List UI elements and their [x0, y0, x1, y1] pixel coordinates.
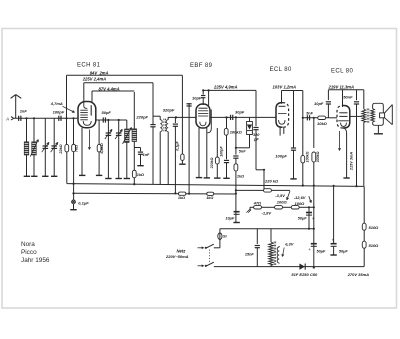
svg-text:1kΩ: 1kΩ — [137, 173, 144, 177]
svg-text:+: + — [308, 247, 311, 252]
svg-text:270V 35mA: 270V 35mA — [347, 272, 369, 277]
svg-text:-12,6V: -12,6V — [294, 195, 306, 200]
svg-text:225V 4,9mA: 225V 4,9mA — [213, 84, 238, 89]
svg-text:220V~50mA: 220V~50mA — [165, 254, 189, 259]
svg-text:510Ω: 510Ω — [369, 225, 380, 230]
svg-text:1nF: 1nF — [20, 109, 28, 114]
svg-text:-3,5V: -3,5V — [275, 193, 285, 198]
svg-text:22kΩ: 22kΩ — [59, 144, 63, 154]
svg-text:10kΩ: 10kΩ — [317, 121, 328, 126]
svg-text:510Ω: 510Ω — [369, 243, 380, 248]
svg-text:30pF: 30pF — [235, 110, 245, 115]
svg-text:100Ω: 100Ω — [295, 201, 306, 206]
svg-text:10pF: 10pF — [192, 96, 202, 101]
svg-text:225V 2,4mA: 225V 2,4mA — [82, 76, 107, 81]
svg-text:51F E250 C80: 51F E250 C80 — [291, 272, 318, 277]
svg-text:Nora: Nora — [21, 241, 35, 248]
svg-text:0,1μF: 0,1μF — [176, 141, 180, 151]
svg-text:ECH 81: ECH 81 — [77, 63, 101, 69]
svg-text:50nF: 50nF — [343, 94, 353, 99]
svg-text:1kΩ: 1kΩ — [237, 174, 244, 178]
svg-text:10μF: 10μF — [225, 216, 235, 220]
svg-text:5nF: 5nF — [239, 149, 246, 153]
svg-text:100pF: 100pF — [220, 146, 224, 157]
svg-text:100pF: 100pF — [53, 110, 65, 115]
svg-text:50μF: 50μF — [339, 249, 349, 253]
svg-text:7kΩ: 7kΩ — [75, 145, 79, 152]
svg-text:4,7mA: 4,7mA — [50, 101, 63, 106]
svg-text:A: A — [6, 116, 9, 121]
svg-text:1nF: 1nF — [143, 153, 150, 157]
svg-text:+: + — [312, 216, 315, 221]
svg-text:pF: pF — [253, 138, 259, 142]
svg-text:1kΩ: 1kΩ — [178, 196, 185, 200]
svg-text:Jahr 1956: Jahr 1956 — [21, 257, 50, 264]
svg-text:1kΩ: 1kΩ — [206, 196, 213, 200]
svg-text:-1,8V: -1,8V — [262, 210, 272, 215]
svg-text:15nF: 15nF — [245, 253, 255, 257]
svg-text:Picco: Picco — [21, 249, 37, 256]
svg-text:50pF: 50pF — [102, 110, 112, 115]
svg-text:ECL 80: ECL 80 — [270, 67, 292, 73]
svg-text:84V 2mA: 84V 2mA — [90, 70, 109, 75]
svg-text:Netz: Netz — [177, 249, 187, 254]
svg-text:EBF 89: EBF 89 — [190, 63, 213, 69]
svg-text:100pF: 100pF — [275, 153, 287, 158]
svg-text:100Ω: 100Ω — [277, 199, 288, 204]
svg-text:10pF: 10pF — [314, 101, 324, 106]
svg-text:220kΩ: 220kΩ — [210, 157, 214, 169]
svg-text:47Ω: 47Ω — [253, 201, 262, 206]
svg-text:320: 320 — [253, 133, 260, 137]
svg-text:ECL 80: ECL 80 — [331, 69, 353, 75]
svg-text:220pF: 220pF — [135, 115, 148, 120]
svg-text:50μF: 50μF — [298, 216, 308, 220]
svg-text:5nF: 5nF — [306, 111, 313, 115]
svg-text:6,8kΩ: 6,8kΩ — [100, 143, 104, 153]
svg-text:6,3V: 6,3V — [285, 241, 294, 246]
svg-text:215V 3mA: 215V 3mA — [350, 152, 354, 171]
svg-text:300kΩ: 300kΩ — [316, 151, 320, 162]
svg-text:220 kΩ: 220 kΩ — [264, 179, 279, 184]
svg-text:103V 1,2mA: 103V 1,2mA — [273, 84, 297, 89]
svg-text:0,1μF: 0,1μF — [78, 200, 89, 205]
svg-text:+: + — [332, 238, 335, 243]
svg-text:219V 11,3mA: 219V 11,3mA — [328, 85, 355, 90]
svg-text:320pF: 320pF — [163, 108, 175, 113]
svg-text:50μF: 50μF — [317, 249, 327, 253]
svg-text:100kΩ: 100kΩ — [306, 151, 310, 162]
